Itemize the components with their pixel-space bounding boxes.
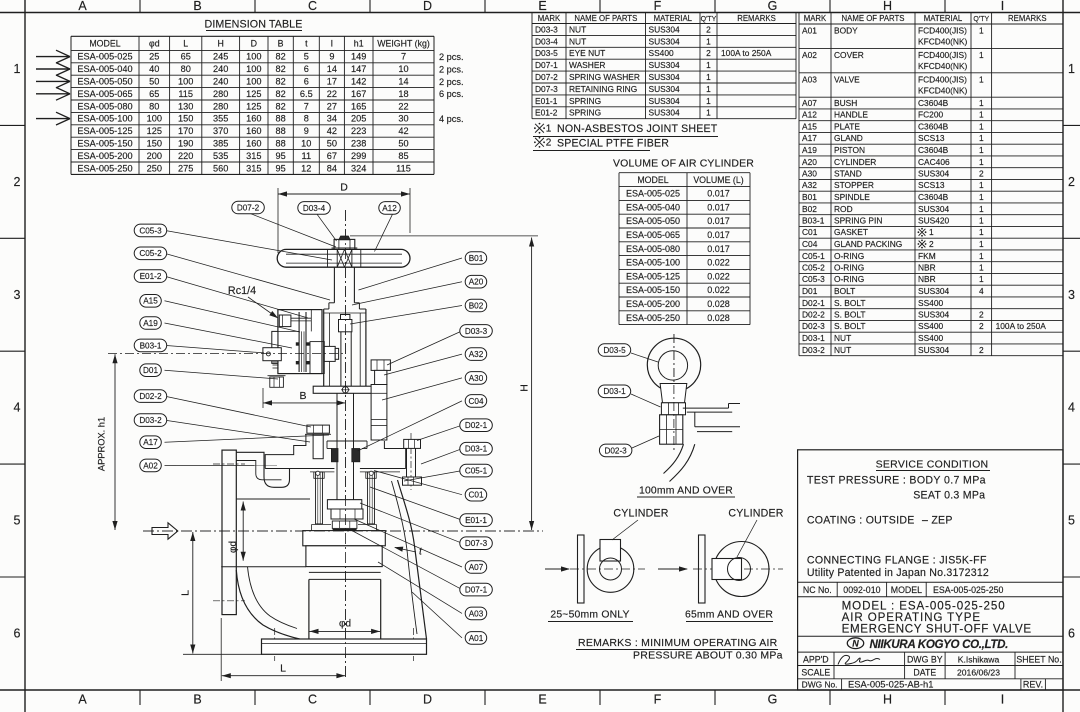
svg-text:100mm AND OVER: 100mm AND OVER bbox=[639, 486, 733, 497]
svg-text:REMARKS: REMARKS bbox=[737, 14, 776, 23]
svg-text:A19: A19 bbox=[143, 319, 158, 328]
svg-text:2 pcs.: 2 pcs. bbox=[439, 64, 464, 74]
svg-text:50: 50 bbox=[327, 139, 337, 149]
svg-text:GASKET: GASKET bbox=[834, 227, 868, 237]
svg-text:SUS304: SUS304 bbox=[649, 24, 681, 34]
svg-text:65: 65 bbox=[181, 52, 191, 62]
svg-text:95: 95 bbox=[275, 151, 285, 161]
svg-text:355: 355 bbox=[213, 114, 228, 124]
svg-text:160: 160 bbox=[246, 126, 261, 136]
svg-text:1: 1 bbox=[706, 108, 711, 118]
svg-text:DWG BY: DWG BY bbox=[907, 654, 943, 664]
svg-text:PLATE: PLATE bbox=[834, 122, 860, 132]
svg-text:142: 142 bbox=[351, 77, 366, 87]
svg-text:1: 1 bbox=[979, 227, 984, 237]
svg-text:2: 2 bbox=[546, 138, 552, 149]
svg-text:240: 240 bbox=[213, 64, 228, 74]
svg-text:SUS304: SUS304 bbox=[918, 169, 950, 179]
svg-text:NUT: NUT bbox=[834, 333, 851, 343]
svg-text:CAC406: CAC406 bbox=[918, 157, 950, 167]
svg-text:SCALE: SCALE bbox=[801, 668, 830, 678]
svg-text:67: 67 bbox=[327, 151, 337, 161]
svg-text:ESA-005-080: ESA-005-080 bbox=[626, 244, 680, 254]
svg-text:1: 1 bbox=[979, 239, 984, 249]
svg-text:ESA-005-025-AB-h1: ESA-005-025-AB-h1 bbox=[848, 679, 933, 690]
svg-text:82: 82 bbox=[275, 64, 285, 74]
svg-text:NAME OF PARTS: NAME OF PARTS bbox=[842, 14, 905, 23]
svg-text:C3604B: C3604B bbox=[918, 145, 949, 155]
svg-text:385: 385 bbox=[213, 139, 228, 149]
svg-text:8: 8 bbox=[304, 114, 309, 124]
svg-text:φd: φd bbox=[228, 541, 239, 553]
svg-text:299: 299 bbox=[351, 151, 366, 161]
svg-text:ESA-005-150: ESA-005-150 bbox=[77, 139, 132, 149]
svg-text:D02-2: D02-2 bbox=[139, 392, 162, 401]
svg-text:ESA-005-250: ESA-005-250 bbox=[77, 163, 132, 173]
svg-text:0.017: 0.017 bbox=[707, 244, 730, 254]
svg-text:1: 1 bbox=[979, 274, 984, 284]
svg-text:Q'TY: Q'TY bbox=[973, 16, 989, 23]
svg-text:88: 88 bbox=[275, 139, 285, 149]
svg-text:A03: A03 bbox=[469, 609, 484, 618]
svg-text:ESA-005-125: ESA-005-125 bbox=[77, 126, 132, 136]
svg-text:1: 1 bbox=[979, 251, 984, 261]
svg-text:1: 1 bbox=[979, 74, 984, 84]
svg-text:275: 275 bbox=[178, 163, 193, 173]
svg-text:1: 1 bbox=[979, 180, 984, 190]
svg-text:C05-2: C05-2 bbox=[139, 249, 162, 258]
svg-text:A17: A17 bbox=[802, 133, 817, 143]
svg-text:D07-2: D07-2 bbox=[237, 203, 260, 212]
svg-text:PRESSURE ABOUT 0.30 MPa: PRESSURE ABOUT 0.30 MPa bbox=[633, 650, 783, 662]
svg-text:C: C bbox=[308, 693, 317, 707]
svg-text:1: 1 bbox=[14, 62, 21, 76]
svg-text:125: 125 bbox=[147, 126, 162, 136]
svg-text:KFCD40(NK): KFCD40(NK) bbox=[918, 61, 968, 71]
svg-text:B03-1: B03-1 bbox=[802, 216, 825, 226]
svg-text:SUS304: SUS304 bbox=[649, 72, 681, 82]
svg-text:80: 80 bbox=[149, 101, 159, 111]
svg-text:315: 315 bbox=[246, 151, 261, 161]
svg-text:BODY: BODY bbox=[834, 26, 858, 36]
svg-text:240: 240 bbox=[213, 77, 228, 87]
svg-text:2: 2 bbox=[706, 24, 711, 34]
svg-text:KFCD40(NK): KFCD40(NK) bbox=[918, 37, 968, 47]
svg-text:2 pcs.: 2 pcs. bbox=[439, 52, 464, 62]
svg-text:2: 2 bbox=[979, 345, 984, 355]
svg-text:3: 3 bbox=[1068, 288, 1075, 302]
svg-text:B: B bbox=[193, 0, 201, 13]
svg-text:0.022: 0.022 bbox=[707, 271, 730, 281]
svg-text:10: 10 bbox=[301, 139, 311, 149]
svg-text:COATING : OUTSIDE: COATING : OUTSIDE bbox=[807, 515, 915, 527]
svg-text:100: 100 bbox=[178, 77, 193, 87]
svg-text:0.022: 0.022 bbox=[707, 258, 730, 268]
svg-text:88: 88 bbox=[275, 114, 285, 124]
svg-text:1: 1 bbox=[979, 26, 984, 36]
svg-text:2: 2 bbox=[1068, 175, 1075, 189]
svg-text:4: 4 bbox=[1068, 401, 1075, 415]
svg-text:D: D bbox=[423, 693, 432, 707]
svg-text:A17: A17 bbox=[143, 438, 158, 447]
svg-text:223: 223 bbox=[351, 126, 366, 136]
svg-text:115: 115 bbox=[396, 163, 411, 173]
svg-text:MARK: MARK bbox=[538, 14, 561, 23]
svg-text:Utility Patented in Japan No.: Utility Patented in Japan No.3172312 bbox=[807, 567, 989, 579]
svg-text:1: 1 bbox=[979, 263, 984, 273]
svg-text:WEIGHT (kg): WEIGHT (kg) bbox=[377, 39, 430, 49]
svg-text:315: 315 bbox=[246, 163, 261, 173]
svg-text:VOLUME (L): VOLUME (L) bbox=[693, 175, 743, 185]
svg-text:NBR: NBR bbox=[918, 274, 936, 284]
svg-text:D07-3: D07-3 bbox=[465, 539, 488, 548]
svg-text:0.017: 0.017 bbox=[707, 189, 730, 199]
svg-text:D02-1: D02-1 bbox=[465, 421, 488, 430]
svg-text:11: 11 bbox=[302, 151, 312, 161]
svg-text:D03-3: D03-3 bbox=[535, 24, 558, 34]
svg-text:C05-1: C05-1 bbox=[802, 251, 825, 261]
svg-text:MODEL: MODEL bbox=[637, 175, 668, 185]
svg-text:560: 560 bbox=[213, 163, 228, 173]
svg-text:SUS304: SUS304 bbox=[649, 84, 681, 94]
svg-text:205: 205 bbox=[351, 114, 366, 124]
svg-text:B: B bbox=[193, 693, 201, 707]
svg-text:E01-2: E01-2 bbox=[535, 108, 558, 118]
svg-text:1: 1 bbox=[706, 60, 711, 70]
svg-text:A01: A01 bbox=[802, 26, 817, 36]
svg-text:2: 2 bbox=[979, 169, 984, 179]
svg-text:5: 5 bbox=[14, 514, 21, 528]
svg-text:A01: A01 bbox=[469, 634, 484, 643]
svg-text:FCD400(JIS): FCD400(JIS) bbox=[918, 50, 967, 60]
svg-text:S. BOLT: S. BOLT bbox=[834, 298, 866, 308]
svg-text:DIMENSION TABLE: DIMENSION TABLE bbox=[205, 19, 303, 31]
svg-text:0.028: 0.028 bbox=[707, 313, 730, 323]
svg-text:3: 3 bbox=[14, 288, 21, 302]
svg-text:1: 1 bbox=[1068, 62, 1075, 76]
svg-text:D: D bbox=[423, 0, 432, 13]
svg-text:A32: A32 bbox=[469, 350, 484, 359]
svg-text:27: 27 bbox=[327, 101, 337, 111]
svg-text:170: 170 bbox=[178, 126, 193, 136]
svg-text:PISTON: PISTON bbox=[834, 145, 865, 155]
svg-text:REMARKS : MINIMUM OPERATING: REMARKS : MINIMUM OPERATING AIR bbox=[578, 637, 778, 649]
svg-text:D03-2: D03-2 bbox=[802, 345, 825, 355]
svg-text:130: 130 bbox=[178, 101, 193, 111]
svg-text:150: 150 bbox=[147, 139, 162, 149]
svg-text:4 pcs.: 4 pcs. bbox=[439, 114, 464, 124]
svg-text:324: 324 bbox=[351, 163, 366, 173]
svg-text:25~50mm ONLY: 25~50mm ONLY bbox=[550, 610, 629, 621]
svg-text:E01-2: E01-2 bbox=[140, 272, 162, 281]
svg-text:D03-4: D03-4 bbox=[535, 36, 558, 46]
svg-text:1: 1 bbox=[979, 216, 984, 226]
svg-text:D03-4: D03-4 bbox=[303, 204, 326, 213]
svg-text:L: L bbox=[280, 663, 286, 675]
svg-text:12: 12 bbox=[301, 163, 311, 173]
svg-text:SHEET No.: SHEET No. bbox=[1016, 654, 1061, 664]
svg-text:SUS304: SUS304 bbox=[918, 345, 950, 355]
svg-text:A15: A15 bbox=[802, 122, 817, 132]
svg-text:ESA-005-040: ESA-005-040 bbox=[626, 202, 680, 212]
svg-text:95: 95 bbox=[275, 163, 285, 173]
svg-text:CYLINDER: CYLINDER bbox=[613, 508, 668, 520]
svg-text:C3604B: C3604B bbox=[918, 98, 949, 108]
svg-text:2: 2 bbox=[14, 175, 21, 189]
svg-text:147: 147 bbox=[351, 64, 366, 74]
svg-text:A20: A20 bbox=[802, 157, 817, 167]
svg-text:I: I bbox=[1001, 0, 1004, 13]
svg-text:E: E bbox=[538, 693, 546, 707]
svg-text:22: 22 bbox=[398, 101, 408, 111]
svg-text:TEST PRESSURE : BODY 0.7 M: TEST PRESSURE : BODY 0.7 MPa bbox=[807, 475, 986, 487]
svg-text:82: 82 bbox=[275, 77, 285, 87]
svg-text:1: 1 bbox=[979, 50, 984, 60]
svg-text:C01: C01 bbox=[468, 491, 483, 500]
svg-text:C05-3: C05-3 bbox=[139, 226, 162, 235]
svg-text:NON-ASBESTOS JOINT SHEET: NON-ASBESTOS JOINT SHEET bbox=[557, 123, 718, 135]
svg-text:65: 65 bbox=[149, 89, 159, 99]
svg-text:0092-010: 0092-010 bbox=[843, 585, 880, 595]
svg-text:E: E bbox=[538, 0, 546, 13]
svg-text:125: 125 bbox=[246, 101, 261, 111]
svg-text:C05-2: C05-2 bbox=[802, 263, 825, 273]
svg-text:COVER: COVER bbox=[834, 50, 864, 60]
svg-text:200: 200 bbox=[147, 151, 162, 161]
svg-text:A30: A30 bbox=[802, 169, 817, 179]
svg-text:K.Ishikawa: K.Ishikawa bbox=[958, 654, 1000, 664]
svg-text:STAND: STAND bbox=[834, 169, 862, 179]
svg-text:4: 4 bbox=[14, 401, 21, 415]
svg-text:149: 149 bbox=[351, 52, 366, 62]
svg-text:E01-1: E01-1 bbox=[465, 516, 487, 525]
svg-text:SEAT 0.3 MPa: SEAT 0.3 MPa bbox=[913, 489, 985, 501]
svg-text:14: 14 bbox=[327, 64, 337, 74]
svg-text:NBR: NBR bbox=[918, 263, 936, 273]
svg-text:KFCD40(NK): KFCD40(NK) bbox=[918, 85, 968, 95]
svg-text:FC200: FC200 bbox=[918, 110, 943, 120]
svg-text:30: 30 bbox=[398, 114, 408, 124]
svg-text:Rc1/4: Rc1/4 bbox=[228, 285, 256, 297]
svg-text:1: 1 bbox=[546, 124, 552, 135]
svg-text:5: 5 bbox=[304, 52, 309, 62]
svg-text:VOLUME OF AIR CYLINDER: VOLUME OF AIR CYLINDER bbox=[613, 158, 754, 170]
svg-text:6: 6 bbox=[304, 77, 309, 87]
svg-text:6: 6 bbox=[14, 627, 21, 641]
svg-text:NUT: NUT bbox=[834, 345, 851, 355]
svg-text:25: 25 bbox=[149, 52, 159, 62]
svg-text:NIIKURA KOGYO CO.,LTD.: NIIKURA KOGYO CO.,LTD. bbox=[870, 638, 1009, 651]
svg-text:ESA-005-100: ESA-005-100 bbox=[626, 258, 680, 268]
svg-text:ESA-005-065: ESA-005-065 bbox=[626, 230, 680, 240]
svg-text:ESA-005-065: ESA-005-065 bbox=[77, 89, 132, 99]
svg-text:2016/06/23: 2016/06/23 bbox=[957, 668, 1000, 678]
svg-text:0.017: 0.017 bbox=[707, 216, 730, 226]
svg-text:D03-5: D03-5 bbox=[603, 346, 626, 355]
svg-text:C: C bbox=[308, 0, 317, 13]
svg-text:D02-3: D02-3 bbox=[802, 321, 825, 331]
svg-text:BOLT: BOLT bbox=[834, 286, 855, 296]
svg-text:125: 125 bbox=[246, 89, 261, 99]
svg-text:100: 100 bbox=[246, 77, 261, 87]
svg-text:SUS304: SUS304 bbox=[649, 60, 681, 70]
svg-text:2: 2 bbox=[979, 310, 984, 320]
svg-text:245: 245 bbox=[213, 52, 228, 62]
svg-text:ESA-005-150: ESA-005-150 bbox=[626, 285, 680, 295]
svg-text:ESA-005-100: ESA-005-100 bbox=[77, 114, 132, 124]
svg-text:85: 85 bbox=[398, 151, 408, 161]
svg-text:ESA-005-050: ESA-005-050 bbox=[626, 216, 680, 226]
svg-text:17: 17 bbox=[327, 77, 337, 87]
svg-text:9: 9 bbox=[304, 126, 309, 136]
svg-text:H: H bbox=[519, 384, 531, 392]
svg-text:F: F bbox=[654, 693, 662, 707]
svg-text:6.5: 6.5 bbox=[300, 89, 313, 99]
svg-text:10: 10 bbox=[398, 64, 408, 74]
svg-text:MATERIAL: MATERIAL bbox=[924, 14, 963, 23]
svg-text:A07: A07 bbox=[802, 98, 817, 108]
svg-text:SUS304: SUS304 bbox=[649, 96, 681, 106]
svg-text:34: 34 bbox=[327, 114, 337, 124]
svg-text:CYLINDER: CYLINDER bbox=[834, 157, 876, 167]
svg-text:D07-3: D07-3 bbox=[535, 84, 558, 94]
svg-text:F: F bbox=[654, 0, 662, 13]
svg-text:6: 6 bbox=[1068, 627, 1075, 641]
svg-text:A30: A30 bbox=[469, 374, 484, 383]
svg-text:B: B bbox=[299, 390, 306, 402]
svg-text:I: I bbox=[331, 39, 333, 49]
svg-text:SUS420: SUS420 bbox=[918, 216, 950, 226]
svg-text:167: 167 bbox=[351, 89, 366, 99]
svg-text:h1: h1 bbox=[354, 39, 364, 49]
svg-text:A12: A12 bbox=[382, 204, 397, 213]
svg-text:280: 280 bbox=[213, 101, 228, 111]
svg-text:SPRING WASHER: SPRING WASHER bbox=[569, 72, 640, 82]
svg-text:D01: D01 bbox=[802, 286, 818, 296]
svg-text:SPECIAL PTFE FIBER: SPECIAL PTFE FIBER bbox=[557, 137, 669, 149]
svg-text:O-RING: O-RING bbox=[834, 263, 864, 273]
svg-text:APP'D: APP'D bbox=[803, 654, 829, 664]
svg-text:A02: A02 bbox=[143, 461, 158, 470]
svg-text:1: 1 bbox=[706, 84, 711, 94]
svg-text:6: 6 bbox=[304, 64, 309, 74]
svg-text:0.022: 0.022 bbox=[707, 285, 730, 295]
svg-text:NAME OF PARTS: NAME OF PARTS bbox=[574, 14, 637, 23]
svg-text:14: 14 bbox=[398, 77, 408, 87]
svg-text:D02-2: D02-2 bbox=[802, 310, 825, 320]
svg-text:O-RING: O-RING bbox=[834, 251, 864, 261]
svg-text:D02-3: D02-3 bbox=[604, 446, 627, 455]
svg-text:SS400: SS400 bbox=[918, 333, 943, 343]
svg-text:S. BOLT: S. BOLT bbox=[834, 310, 866, 320]
svg-text:SUS304: SUS304 bbox=[918, 286, 950, 296]
svg-text:0.017: 0.017 bbox=[707, 230, 730, 240]
svg-text:100: 100 bbox=[246, 52, 261, 62]
svg-text:280: 280 bbox=[213, 89, 228, 99]
svg-text:160: 160 bbox=[246, 139, 261, 149]
svg-text:50: 50 bbox=[398, 139, 408, 149]
svg-text:1: 1 bbox=[979, 204, 984, 214]
svg-text:SPRING: SPRING bbox=[569, 108, 601, 118]
svg-text:5: 5 bbox=[1068, 514, 1075, 528]
svg-text:82: 82 bbox=[275, 52, 285, 62]
svg-text:NC No.: NC No. bbox=[803, 585, 832, 595]
svg-text:40: 40 bbox=[149, 64, 159, 74]
svg-text:I: I bbox=[1001, 693, 1004, 707]
svg-text:535: 535 bbox=[213, 151, 228, 161]
svg-text:VALVE: VALVE bbox=[834, 74, 860, 84]
svg-text:82: 82 bbox=[275, 89, 285, 99]
svg-text:A32: A32 bbox=[802, 180, 817, 190]
svg-text:100: 100 bbox=[246, 64, 261, 74]
svg-text:B01: B01 bbox=[469, 254, 484, 263]
svg-text:H: H bbox=[218, 39, 224, 49]
svg-text:D03-5: D03-5 bbox=[535, 48, 558, 58]
svg-text:SS400: SS400 bbox=[918, 298, 943, 308]
svg-text:6 pcs.: 6 pcs. bbox=[439, 89, 464, 99]
svg-text:0.028: 0.028 bbox=[707, 299, 730, 309]
svg-text:SPRING PIN: SPRING PIN bbox=[834, 216, 882, 226]
svg-text:100A to 250A: 100A to 250A bbox=[721, 48, 772, 58]
svg-text:1: 1 bbox=[979, 192, 984, 202]
svg-text:SS400: SS400 bbox=[918, 321, 943, 331]
svg-text:A15: A15 bbox=[143, 297, 158, 306]
svg-text:C3604B: C3604B bbox=[918, 122, 949, 132]
svg-text:1: 1 bbox=[979, 110, 984, 120]
svg-text:SS400: SS400 bbox=[649, 48, 674, 58]
svg-text:SCS13: SCS13 bbox=[918, 133, 945, 143]
svg-text:H: H bbox=[883, 693, 892, 707]
svg-text:APPROX. h1: APPROX. h1 bbox=[97, 417, 107, 471]
svg-text:115: 115 bbox=[178, 89, 193, 99]
svg-text:ESA-005-200: ESA-005-200 bbox=[626, 299, 680, 309]
svg-text:SUS304: SUS304 bbox=[649, 36, 681, 46]
svg-text:D01: D01 bbox=[143, 366, 158, 375]
svg-text:2: 2 bbox=[929, 239, 934, 249]
svg-text:ESA-005-025-250: ESA-005-025-250 bbox=[933, 585, 1004, 595]
svg-text:GLAND PACKING: GLAND PACKING bbox=[834, 239, 902, 249]
svg-text:4: 4 bbox=[979, 286, 984, 296]
svg-text:DWG No.: DWG No. bbox=[802, 679, 838, 689]
svg-text:MODEL: MODEL bbox=[891, 585, 922, 595]
svg-text:CYLINDER: CYLINDER bbox=[728, 508, 783, 520]
svg-text:65mm AND OVER: 65mm AND OVER bbox=[685, 610, 773, 621]
svg-text:B03-1: B03-1 bbox=[140, 341, 162, 350]
svg-text:SERVICE CONDITION: SERVICE CONDITION bbox=[876, 458, 989, 470]
svg-text:FCD400(JIS): FCD400(JIS) bbox=[918, 26, 967, 36]
svg-text:O-RING: O-RING bbox=[834, 274, 864, 284]
svg-text:A02: A02 bbox=[802, 50, 817, 60]
svg-text:D: D bbox=[251, 39, 257, 49]
svg-text:GLAND: GLAND bbox=[834, 133, 863, 143]
svg-text:42: 42 bbox=[398, 126, 408, 136]
svg-text:H: H bbox=[883, 0, 892, 13]
svg-text:A07: A07 bbox=[469, 563, 484, 572]
svg-text:50: 50 bbox=[149, 77, 159, 87]
svg-text:REV.: REV. bbox=[1023, 680, 1043, 690]
svg-text:1: 1 bbox=[929, 227, 934, 237]
svg-text:9: 9 bbox=[329, 52, 334, 62]
svg-text:1: 1 bbox=[979, 133, 984, 143]
svg-text:SPRING: SPRING bbox=[569, 96, 601, 106]
svg-text:84: 84 bbox=[327, 163, 337, 173]
svg-text:G: G bbox=[768, 693, 778, 707]
svg-text:EMERGENCY SHUT-OFF VALVE: EMERGENCY SHUT-OFF VALVE bbox=[842, 623, 1032, 636]
svg-text:FCD400(JIS): FCD400(JIS) bbox=[918, 74, 967, 84]
svg-text:165: 165 bbox=[351, 101, 366, 111]
svg-text:D07-1: D07-1 bbox=[465, 586, 488, 595]
svg-text:220: 220 bbox=[178, 151, 193, 161]
